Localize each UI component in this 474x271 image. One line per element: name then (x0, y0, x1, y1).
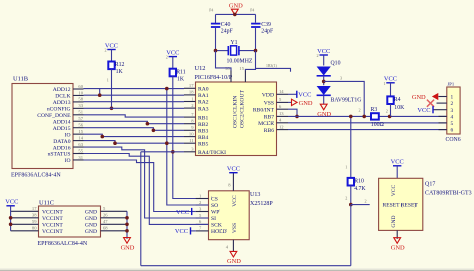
svg-text:U13: U13 (250, 192, 260, 198)
svg-text:VCC: VCC (417, 107, 430, 114)
wire ADD16 down to U13 SI (84, 147, 209, 218)
resistor R4 10K (386, 96, 405, 113)
junction R10 top on MCLR line (349, 115, 353, 119)
wire IO to RB4 (84, 134, 185, 136)
wire MCLR net line RB7 to R3 (288, 115, 371, 117)
component Q17 CAT809RTBI-GT3 (379, 178, 472, 230)
JP1 pin 1 stub (439, 96, 447, 98)
junction on DCLK row (98, 93, 102, 97)
svg-text:3: 3 (451, 108, 454, 114)
svg-text:6: 6 (451, 128, 454, 134)
JP1 pin 6 stub (439, 129, 447, 131)
svg-text:5: 5 (451, 121, 454, 127)
svg-text:GND: GND (227, 258, 241, 265)
wire nCONFIG to RA3 (84, 107, 185, 109)
svg-text:10K: 10K (394, 105, 405, 111)
wire VCC to R4 (390, 83, 392, 97)
svg-text:VCCINT: VCCINT (42, 229, 63, 235)
svg-text:DCLK: DCLK (55, 94, 70, 100)
ground below Q17 (391, 238, 405, 252)
wire VCC to R12 (111, 50, 113, 62)
svg-text:Y1: Y1 (231, 40, 238, 46)
U11C pin 59 VCCINT (11, 219, 39, 224)
svg-text:31: 31 (78, 155, 83, 160)
wire R4 to MCLR line (390, 104, 392, 116)
wire C39 to crystal row (255, 28, 257, 51)
svg-text:17: 17 (189, 83, 194, 88)
U11B pin 57 ADD14 (73, 116, 84, 121)
wire reset node down to bottom rail (350, 205, 352, 266)
wire crystal left branch to OSC1 (216, 51, 232, 71)
no-ERC marker at JP1 pin 2 (427, 100, 434, 107)
svg-text:1B3(1): 1B3(1) (266, 64, 277, 68)
svg-text:RB2: RB2 (198, 122, 208, 128)
U12 pin 15 OSC2/CLKOUT top stub (239, 66, 245, 82)
U12 pin 7 RB1 (184, 112, 208, 121)
diode Q10 BAV99LT1G upper (317, 61, 341, 76)
svg-text:2: 2 (105, 48, 107, 53)
ground below U11C (121, 238, 135, 252)
svg-text:10: 10 (189, 131, 194, 136)
svg-text:VCC: VCC (391, 184, 397, 196)
svg-text:47: 47 (103, 219, 108, 224)
svg-text:RA0: RA0 (198, 87, 209, 93)
svg-text:VCCINT: VCCINT (42, 223, 63, 229)
svg-text:SO: SO (211, 203, 218, 209)
junction on RB5 step (113, 141, 117, 145)
svg-text:RB3: RB3 (198, 129, 208, 135)
U11C pin 17 VCCINT (11, 206, 39, 211)
U12 pin 1 RA2 (184, 96, 209, 105)
svg-text:26: 26 (103, 213, 108, 218)
svg-text:RB6: RB6 (264, 128, 274, 134)
svg-text:16: 16 (225, 66, 230, 71)
wire stub ADD12 row to DCLK row (99, 89, 101, 96)
svg-text:1: 1 (384, 81, 386, 86)
svg-text:15: 15 (78, 129, 83, 134)
U11B pin 15 IO (73, 129, 84, 134)
svg-text:VSS: VSS (232, 223, 238, 233)
svg-text:11: 11 (189, 138, 194, 143)
svg-text:nSTATUS: nSTATUS (48, 152, 71, 158)
ground at top of crystal circuit (229, 2, 243, 15)
junction on RB2 step (146, 122, 150, 126)
U11B pin 14 DATA0 (73, 135, 84, 140)
svg-text:U11B: U11B (13, 76, 28, 83)
U11B pin 58 ADD13 (73, 97, 84, 102)
svg-text:VCC: VCC (227, 166, 240, 173)
svg-text:2: 2 (365, 199, 367, 204)
svg-text:VCC: VCC (232, 195, 238, 207)
U12 pin 14 VDD (262, 89, 288, 98)
svg-text:X25128P: X25128P (250, 201, 273, 207)
component U11C EPF8636ALC84-4N (38, 200, 101, 247)
wire top rail of crystal circuit (216, 14, 256, 22)
svg-text:R11: R11 (176, 69, 186, 75)
svg-text:GND: GND (391, 245, 405, 252)
U13 pin 1 CS (196, 193, 218, 202)
svg-text:2: 2 (359, 108, 361, 113)
U12 pin 11 RB5 (184, 138, 208, 147)
svg-text:U11C: U11C (39, 200, 54, 207)
JP1 pin 5 stub (439, 122, 447, 124)
svg-text:VCC: VCC (317, 48, 330, 55)
svg-text:RA2: RA2 (198, 100, 209, 106)
VCC port at U12 VDD (297, 91, 312, 99)
svg-text:VCC: VCC (105, 42, 118, 49)
junction R3-R4 (388, 115, 392, 119)
U13 pin 3 WP (196, 206, 220, 215)
junction dots on U11C GND rail (125, 216, 129, 233)
svg-text:R3: R3 (371, 107, 378, 113)
U11B pin 55 nSTATUS (73, 148, 84, 153)
U12 pin 10 RB4 (184, 131, 208, 140)
svg-text:VCC: VCC (298, 92, 311, 99)
svg-text:10.00MHZ: 10.00MHZ (227, 59, 253, 65)
wire lower diode to ground (323, 95, 325, 104)
svg-text:57: 57 (78, 116, 83, 121)
U12 pin 6 RB0/INT (253, 104, 288, 113)
wire U11C GND pins to ground (126, 211, 128, 239)
wire RB6 row to JP1 pin 6 (288, 129, 447, 131)
junction on RB4 row (101, 135, 105, 139)
JP1 pin 2 stub (437, 102, 447, 104)
resistor R3 100ohm (359, 107, 385, 128)
svg-text:GND: GND (85, 229, 97, 235)
svg-text:38: 38 (32, 213, 37, 218)
wire VCC to Q17 (396, 166, 398, 179)
svg-text:EPF8636ALC84-4N: EPF8636ALC84-4N (38, 241, 88, 247)
window edge strip at bottom (0, 268, 474, 271)
svg-text:55: 55 (78, 148, 83, 153)
svg-text:): ) (414, 202, 416, 209)
junction R11 line with RA4 row (171, 150, 175, 154)
wire crystal right branch to OSC2 (245, 51, 255, 71)
svg-text:JP1: JP1 (448, 82, 455, 87)
svg-text:P4: P4 (209, 9, 213, 13)
svg-text:15: 15 (239, 66, 244, 71)
VCC port above R12 (105, 42, 119, 52)
wire Q17 GND pin to ground (396, 230, 398, 239)
svg-text:56: 56 (78, 123, 83, 128)
svg-text:2: 2 (317, 53, 319, 58)
junction R12-nCONFIG (110, 107, 114, 111)
JP1 pin 4 stub (439, 115, 447, 117)
U12 pin 4 MCLR (258, 118, 288, 127)
junction RB5 row crossing (165, 141, 169, 145)
U11C pin 5 GND (101, 206, 128, 211)
VCC port above Q10 (317, 48, 331, 58)
wire ADD13 to RA2 (84, 101, 185, 103)
svg-text:24pF: 24pF (261, 28, 274, 34)
svg-text:VCC: VCC (175, 228, 188, 235)
ground below U13 (227, 251, 241, 265)
U11C pin 68 GND (101, 226, 128, 231)
wire between diodes (323, 76, 325, 85)
component U13 X25128P (209, 191, 274, 240)
net label stub right of crystal (256, 64, 291, 72)
U11B pin 10 DCLK (73, 90, 84, 95)
svg-text:GND: GND (412, 94, 426, 101)
wire IO pin31 down to U13 WP row (84, 160, 192, 212)
U12 pin 18 RA1 (184, 90, 209, 99)
svg-text:1: 1 (345, 165, 347, 170)
svg-text:VCC: VCC (384, 76, 397, 83)
svg-text:BAV99LT1G: BAV99LT1G (331, 98, 362, 104)
svg-text:58: 58 (78, 97, 83, 102)
U11C pin 38 VCCINT (11, 213, 39, 218)
component U11B EPF8636ALC84-4N (11, 76, 73, 179)
svg-text:CONF_DONE: CONF_DONE (37, 113, 71, 119)
svg-text:CAT809RTBI-GT3: CAT809RTBI-GT3 (425, 191, 472, 197)
U13 pin 5 SI (196, 213, 216, 222)
svg-text:GND: GND (299, 100, 313, 107)
svg-text:63: 63 (78, 142, 83, 147)
svg-text:ADD16: ADD16 (53, 145, 71, 151)
wire R12 to nCONFIG line (111, 69, 113, 108)
svg-text:ADD15: ADD15 (53, 126, 71, 132)
svg-text:RB1: RB1 (198, 115, 208, 121)
svg-text:C40: C40 (221, 22, 231, 28)
wire RB0/INT to MCLR net (288, 109, 297, 116)
JP1 pin 3 stub (433, 109, 447, 111)
svg-text:24pF: 24pF (221, 28, 234, 34)
ground at U12 VSS (288, 99, 313, 107)
VCC port above U13 (227, 166, 240, 173)
svg-text:GND: GND (85, 216, 97, 222)
svg-text:WP: WP (211, 210, 219, 216)
svg-text:GND: GND (121, 244, 135, 251)
ground at JP1 pin 1 (412, 94, 438, 101)
svg-text:GND: GND (229, 2, 243, 9)
svg-text:2: 2 (451, 101, 454, 107)
svg-text:2: 2 (345, 196, 347, 201)
svg-text:MCLR: MCLR (258, 121, 274, 127)
U13 pin 6 SCK (196, 219, 222, 228)
wire R11 down to U13 CS pin (173, 76, 209, 198)
U11C pin 26 GND (101, 213, 128, 218)
svg-text:VCCINT: VCCINT (42, 210, 63, 216)
capacitor C39 24pF (250, 9, 274, 35)
U12 pin 12 RB6 (264, 124, 288, 133)
wire R3 to JP1 pin 4 (379, 115, 447, 117)
svg-text:RB0/INT: RB0/INT (253, 107, 275, 113)
wire nSTATUS down to U13 SCK (84, 154, 209, 225)
capacitor C40 24pF (209, 9, 233, 35)
U11B pin 63 ADD16 (73, 142, 84, 147)
U11C pin 80 VCCINT (11, 226, 39, 231)
U11C pin 47 GND (101, 219, 128, 224)
svg-text:51: 51 (78, 110, 83, 115)
U13 pin 8 VCC stub (228, 173, 233, 191)
U12 pin 8 RB2 (184, 119, 208, 128)
svg-text:1: 1 (107, 78, 109, 83)
svg-text:IO: IO (65, 132, 71, 138)
svg-text:18: 18 (189, 90, 194, 95)
svg-text:CON6: CON6 (446, 137, 461, 143)
svg-text:VDD: VDD (262, 93, 274, 99)
wire VCC to R11 (172, 57, 174, 69)
U12 pin 3 RA4/T0CKI (184, 147, 226, 156)
wire MCLR row to JP1 pin 5 (288, 122, 447, 124)
svg-text:RB5: RB5 (198, 141, 208, 147)
resistor R11 1K (170, 69, 186, 83)
svg-text:Q10: Q10 (331, 61, 341, 67)
U12 pin 9 RB3 (184, 125, 208, 134)
svg-text:SCK: SCK (211, 223, 222, 229)
wire R10 to reset junction (350, 186, 352, 205)
VCC port for U11C VCCINT pins (5, 199, 18, 231)
svg-text:VCC: VCC (176, 209, 189, 216)
svg-text:RB7: RB7 (264, 115, 274, 121)
U12 pin 17 RA0 (184, 83, 209, 92)
component U12 PIC16F84-10/P (195, 65, 277, 156)
svg-text:59: 59 (32, 219, 37, 224)
junction GND-top rail (233, 13, 237, 17)
svg-text:2: 2 (386, 109, 388, 114)
svg-text:100Ω: 100Ω (371, 122, 385, 128)
svg-text:RA1: RA1 (198, 93, 209, 99)
svg-text:12: 12 (279, 124, 284, 129)
svg-text:VCC: VCC (166, 49, 179, 56)
svg-text:10: 10 (78, 90, 83, 95)
svg-text:CS: CS (211, 197, 218, 203)
svg-text:R12: R12 (115, 62, 125, 68)
svg-text:60: 60 (78, 84, 83, 89)
svg-text:GND: GND (317, 111, 331, 118)
wire ADD12 to RA0 (84, 88, 185, 90)
svg-text:4: 4 (451, 115, 454, 121)
crystal Y1 10.00MHZ (216, 40, 256, 65)
svg-text:P4: P4 (250, 9, 254, 13)
svg-text:1K: 1K (116, 69, 124, 75)
svg-text:ADD12: ADD12 (53, 87, 71, 93)
svg-text:GND: GND (85, 210, 97, 216)
wire RA0 row down to U13 SO (167, 89, 209, 205)
bottom rail wire (141, 265, 351, 267)
svg-text:ADD13: ADD13 (53, 100, 71, 106)
svg-text:R10: R10 (354, 179, 364, 185)
VCC port above R11 (166, 49, 180, 59)
resistor R10 4.7K (345, 178, 366, 201)
svg-text:1K: 1K (177, 76, 185, 82)
U12 pin 13 RB7 (264, 111, 288, 120)
connector JP1 CON6 (446, 82, 461, 144)
svg-text:VCCINT: VCCINT (42, 216, 63, 222)
wire MCLR line to R10 (345, 116, 351, 178)
svg-text:GND: GND (85, 223, 97, 229)
svg-text:GND: GND (391, 215, 397, 227)
U11B pin 56 ADD15 (73, 123, 84, 128)
svg-text:PIC16F84-10/P: PIC16F84-10/P (195, 75, 233, 81)
svg-text:2: 2 (166, 55, 168, 60)
VCC port at U13 HOLD pin (175, 227, 196, 235)
junction on RB3 step (152, 129, 156, 133)
wire VDD pin to VCC port (288, 93, 297, 95)
junction diode midpoint (322, 80, 326, 84)
junction RA0 row branch (165, 87, 169, 91)
svg-text:RA4/T0CKI: RA4/T0CKI (198, 150, 226, 156)
svg-text:17: 17 (32, 206, 37, 211)
svg-text:Q17: Q17 (425, 182, 435, 188)
svg-text:14: 14 (78, 135, 83, 140)
svg-text:nCONFIG: nCONFIG (47, 107, 71, 113)
junction crystal left (214, 49, 218, 53)
U11B pin 31 IO (73, 155, 84, 160)
svg-text:IO: IO (65, 158, 71, 164)
svg-text:HOLD: HOLD (211, 229, 227, 235)
svg-text:EPF8636ALC84-4N: EPF8636ALC84-4N (11, 172, 61, 178)
U12 pin 5 VSS (264, 97, 288, 106)
junction dots on U11C VCC rail (9, 216, 13, 226)
svg-text:SI: SI (211, 216, 216, 222)
wire ADD14 to RB2 (84, 121, 185, 123)
wire bottom rail up to RA4 row (140, 152, 142, 266)
wire ADD15 to RB3 (84, 128, 185, 131)
wire C40 to crystal row (215, 28, 217, 51)
junction RB0/INT joins line (295, 115, 299, 119)
wire DATA0 to RB5 (84, 141, 185, 144)
U13 pin 2 SO (196, 200, 218, 209)
svg-text:68: 68 (103, 226, 108, 231)
svg-text:14: 14 (279, 89, 284, 94)
wire CONF_DONE to RB1 (84, 115, 185, 117)
wire reset node to Q17 RESET pin (351, 199, 370, 205)
svg-text:3: 3 (340, 76, 342, 81)
U13 pin 7 HOLD (196, 226, 227, 235)
U11B pin 60 ADD12 (73, 84, 84, 89)
diode Q10 BAV99LT1G lower (317, 86, 362, 104)
VCC port above R4 (384, 76, 398, 86)
resistor R12 1K (107, 62, 125, 83)
svg-text:VSS: VSS (264, 101, 274, 107)
svg-text:U12: U12 (195, 65, 206, 72)
VCC port at U13 WP pin (176, 208, 196, 216)
wire diode midpoint to MCLR line (324, 76, 365, 117)
svg-text:OSC1/CLKIN: OSC1/CLKIN (232, 96, 238, 128)
svg-text:R4: R4 (394, 97, 401, 103)
svg-text:VCC: VCC (5, 199, 18, 206)
svg-text:DATA0: DATA0 (53, 139, 70, 145)
svg-text:33: 33 (78, 103, 83, 108)
svg-text:13: 13 (279, 111, 284, 116)
wire VCC to Q10 (323, 55, 325, 66)
VCC port at JP1 pin 3 (417, 106, 433, 114)
svg-text:VCC: VCC (391, 159, 404, 166)
svg-text:4.7K: 4.7K (354, 186, 366, 192)
wire DCLK to RA1 (84, 94, 185, 96)
U13 pin 4 GND stub (226, 240, 234, 252)
svg-text:ADD14: ADD14 (53, 119, 71, 125)
wire RA4/T0CKI row (141, 151, 184, 153)
svg-text:OSC2/CLKOUT: OSC2/CLKOUT (240, 90, 246, 128)
junction reset node (349, 203, 353, 207)
svg-text:80: 80 (32, 226, 37, 231)
svg-text:1: 1 (451, 95, 454, 101)
svg-text:C39: C39 (261, 22, 271, 28)
junction diode branch on MCLR line (362, 115, 366, 119)
svg-text:RA3: RA3 (198, 106, 209, 112)
U12 pin 2 RA3 (184, 103, 209, 112)
ground below Q10 (317, 104, 331, 118)
junction crystal right (254, 49, 258, 53)
svg-text:RB4: RB4 (198, 135, 208, 141)
U11B pin 33 nCONFIG (73, 103, 84, 108)
U11B pin 51 CONF_DONE (73, 110, 84, 115)
VCC port above Q17 (391, 159, 404, 166)
U12 pin 16 OSC1/CLKIN top stub (225, 66, 231, 82)
